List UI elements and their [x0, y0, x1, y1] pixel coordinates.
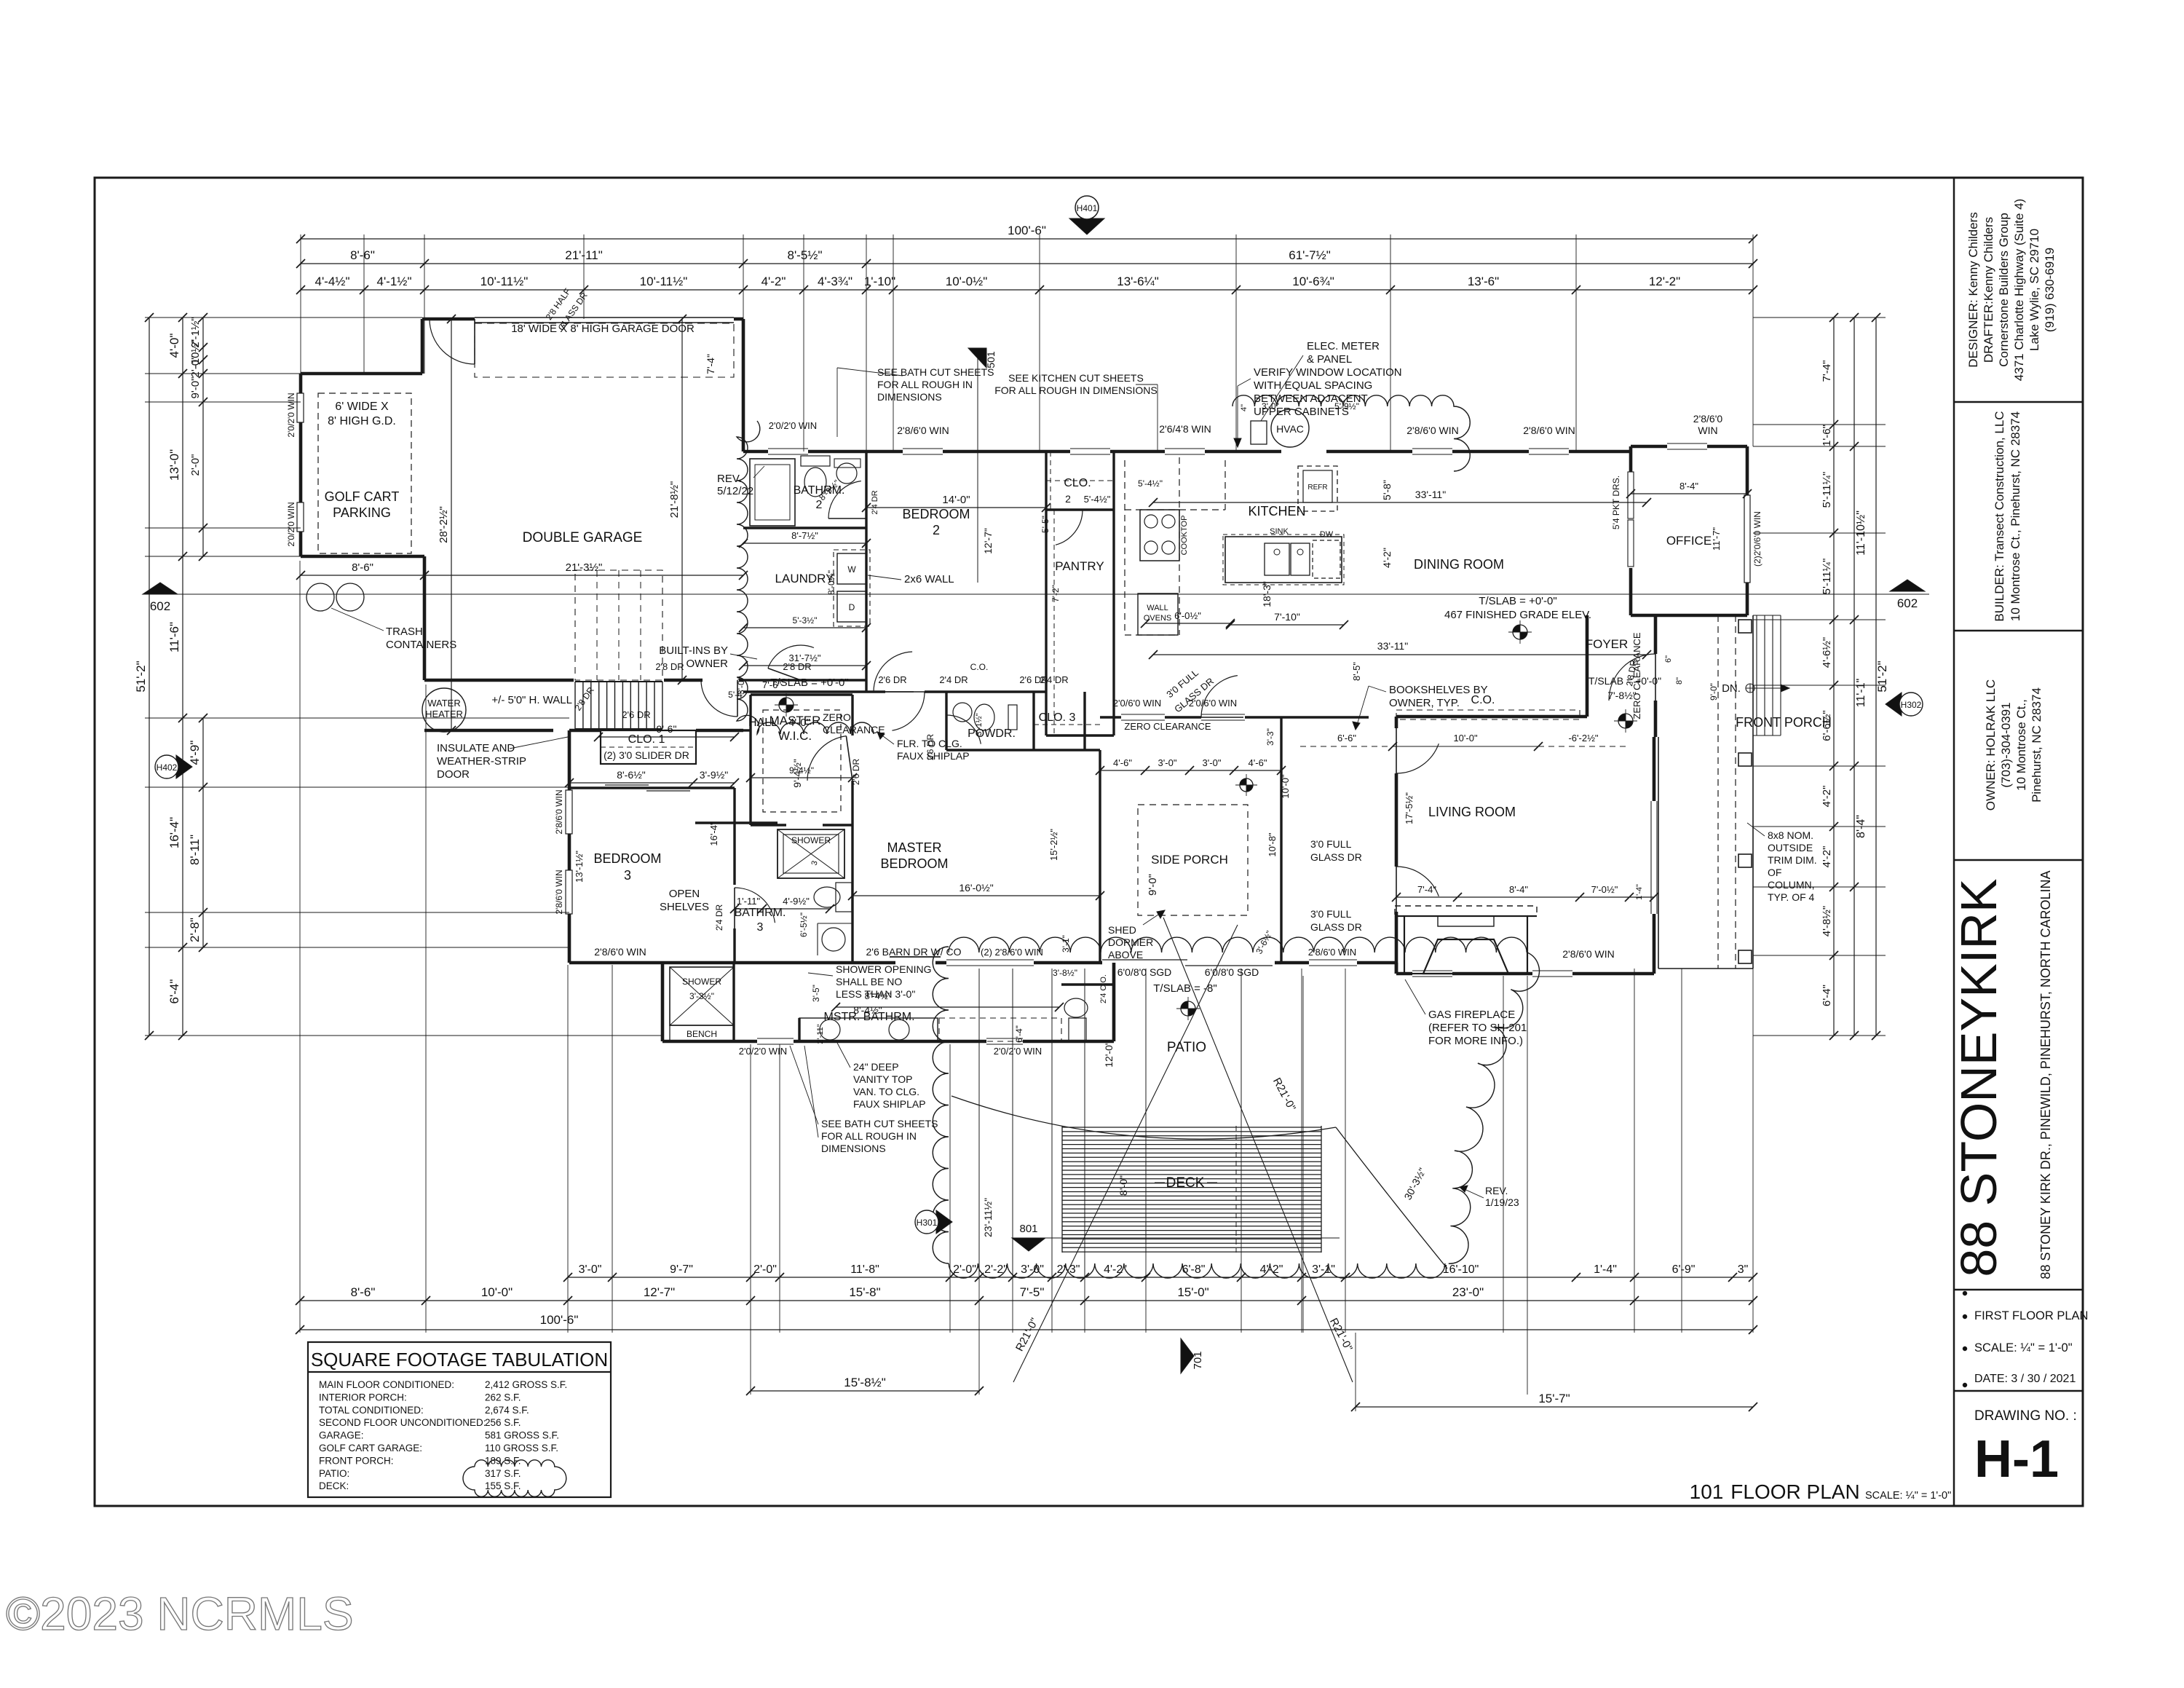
- svg-text:5'-5": 5'-5": [1040, 516, 1051, 533]
- mstr bath interior: [661, 961, 663, 963]
- svg-text:88 STONEYKIRK: 88 STONEYKIRK: [1950, 878, 2007, 1277]
- foyer right wall / front door: [1654, 615, 1658, 654]
- svg-text:2'0/6'0 WIN: 2'0/6'0 WIN: [1189, 698, 1237, 709]
- svg-text:11'-1": 11'-1": [1855, 679, 1867, 708]
- svg-text:4'-2": 4'-2": [1381, 548, 1393, 568]
- svg-text:7'-4": 7'-4": [1417, 884, 1436, 895]
- svg-text:FOR ALL ROUGH IN: FOR ALL ROUGH IN: [877, 379, 973, 390]
- svg-text:10'-8": 10'-8": [1267, 832, 1278, 857]
- wall ovens: [1138, 593, 1178, 635]
- right dimension col fine: [1833, 318, 1835, 1036]
- svg-text:2'0/2'0 WIN: 2'0/2'0 WIN: [286, 393, 296, 437]
- svg-text:BENCH: BENCH: [687, 1029, 717, 1039]
- water heater: [422, 688, 466, 732]
- svg-text:DIMENSIONS: DIMENSIONS: [877, 391, 942, 403]
- svg-text:4'-2": 4'-2": [761, 275, 786, 288]
- svg-text:(919) 630-6919: (919) 630-6919: [2043, 248, 2057, 332]
- open shelves wall: [695, 821, 735, 824]
- svg-text:2: 2: [933, 523, 940, 537]
- svg-text:10'-6¾": 10'-6¾": [1292, 275, 1334, 288]
- marker 501: [968, 348, 986, 368]
- title block: [1953, 178, 1955, 1506]
- living right windows (3) 2-0/6-0: [1650, 801, 1652, 914]
- svg-text:T/SLAB = +0'-0": T/SLAB = +0'-0": [770, 677, 848, 689]
- patio outline verticals: [978, 969, 980, 1277]
- svg-text:5'-3½": 5'-3½": [793, 615, 818, 626]
- svg-text:6'-6": 6'-6": [1337, 733, 1356, 744]
- west wing top wall: [569, 729, 601, 733]
- svg-text:6'0/8'0 SGD: 6'0/8'0 SGD: [1117, 966, 1172, 978]
- svg-text:8'-6": 8'-6": [350, 248, 375, 262]
- svg-text:MASTER: MASTER: [887, 840, 941, 855]
- stairs treads: [574, 682, 576, 729]
- laundry door: [768, 645, 814, 669]
- marker 701: [1181, 1338, 1194, 1373]
- svg-text:DECK: DECK: [1166, 1175, 1205, 1191]
- svg-text:BEDROOM: BEDROOM: [880, 856, 948, 871]
- svg-text:GOLF CART GARAGE:: GOLF CART GARAGE:: [319, 1443, 422, 1454]
- hall south wall: [424, 729, 553, 733]
- svg-text:SHED: SHED: [1108, 924, 1136, 936]
- svg-text:2'8/6'0 WIN: 2'8/6'0 WIN: [1562, 948, 1614, 960]
- svg-text:SECOND FLOOR UNCONDITIONED:: SECOND FLOOR UNCONDITIONED:: [319, 1417, 486, 1428]
- svg-text:ZERO CLEARANCE: ZERO CLEARANCE: [1124, 721, 1211, 732]
- garage west jog wall: [421, 319, 424, 374]
- svg-text:SHOWER: SHOWER: [791, 835, 831, 845]
- svg-text:2'6 BARN DR W/ CO: 2'6 BARN DR W/ CO: [866, 946, 961, 958]
- svg-text:3'-0": 3'-0": [1158, 757, 1177, 768]
- svg-text:DOUBLE GARAGE: DOUBLE GARAGE: [523, 530, 643, 545]
- svg-text:7'-4": 7'-4": [705, 354, 716, 374]
- marker H402: [176, 755, 192, 778]
- svg-text:61'-7½": 61'-7½": [1289, 248, 1330, 262]
- svg-text:12'-0": 12'-0": [1103, 1041, 1115, 1068]
- bottom extension lines: [299, 561, 301, 1333]
- svg-text:VAN. TO CLG.: VAN. TO CLG.: [853, 1086, 919, 1097]
- svg-text:3'-0": 3'-0": [1203, 757, 1222, 768]
- svg-text:2'8/6'0 WIN: 2'8/6'0 WIN: [594, 946, 646, 958]
- svg-text:REV.: REV.: [717, 473, 742, 485]
- mstr bath toilet: [1069, 1018, 1086, 1041]
- svg-text:28'-2½": 28'-2½": [438, 506, 450, 543]
- svg-text:5'-8": 5'-8": [1381, 480, 1393, 500]
- shed dormer dashed: [1138, 805, 1248, 915]
- svg-text:SEE BATH CUT SHEETS: SEE BATH CUT SHEETS: [877, 366, 994, 378]
- svg-text:WATER: WATER: [427, 698, 461, 709]
- svg-text:SHOWER: SHOWER: [682, 977, 721, 987]
- kitchen-dining divider none: [1281, 716, 1369, 718]
- svg-text:FLOOR PLAN: FLOOR PLAN: [1730, 1480, 1859, 1503]
- svg-text:7'-4": 7'-4": [1821, 360, 1833, 382]
- svg-text:15'-2½": 15'-2½": [1048, 829, 1059, 861]
- svg-text:2'0/2'0 WIN: 2'0/2'0 WIN: [994, 1046, 1042, 1057]
- svg-text:10'-0": 10'-0": [481, 1285, 513, 1299]
- svg-text:51'-2": 51'-2": [134, 660, 148, 692]
- svg-text:2'0/2'0 WIN: 2'0/2'0 WIN: [739, 1046, 787, 1057]
- svg-text:10 Montrose Ct., Pinehurst, NC: 10 Montrose Ct., Pinehurst, NC 28374: [2009, 411, 2022, 621]
- svg-text:WIN: WIN: [1698, 425, 1717, 436]
- laundry walls: [743, 679, 866, 681]
- svg-text:SCALE: ¼" = 1'-0": SCALE: ¼" = 1'-0": [1865, 1490, 1951, 1502]
- garage top wall: [422, 318, 475, 321]
- svg-text:3'-8½": 3'-8½": [1053, 968, 1077, 978]
- svg-text:REFR: REFR: [1307, 484, 1327, 492]
- svg-text:8'-11": 8'-11": [188, 835, 202, 865]
- svg-text:10'-0½": 10'-0½": [946, 275, 987, 288]
- svg-text:CONTAINERS: CONTAINERS: [386, 639, 456, 651]
- svg-text:CLO. 3: CLO. 3: [1039, 711, 1076, 724]
- svg-text:CLEARANCE: CLEARANCE: [823, 724, 885, 735]
- pantry door: [1056, 510, 1083, 545]
- svg-text:3'0 FULL: 3'0 FULL: [1310, 908, 1352, 920]
- svg-text:BEDROOM: BEDROOM: [593, 851, 661, 866]
- svg-text:4'-8½": 4'-8½": [1821, 906, 1833, 936]
- marker H301: [936, 1210, 952, 1234]
- svg-text:OWNER: OWNER: [687, 658, 729, 670]
- svg-text:T/SLAB = -8": T/SLAB = -8": [1153, 982, 1216, 995]
- svg-text:SEE BATH CUT SHEETS: SEE BATH CUT SHEETS: [821, 1118, 938, 1129]
- svg-text:100'-6": 100'-6": [1008, 224, 1046, 237]
- svg-text:2'4 DR: 2'4 DR: [939, 674, 968, 685]
- bedroom3 south wall: [569, 961, 662, 965]
- bath3 toilet: [836, 883, 852, 912]
- svg-text:5'-11¼": 5'-11¼": [1821, 472, 1833, 508]
- right dimension col 51-2: [1875, 318, 1877, 1036]
- svg-text:8'-4": 8'-4": [1509, 884, 1528, 895]
- bottom dimension row 4: [751, 1390, 979, 1392]
- front porch outline: [1658, 737, 1659, 969]
- svg-text:DINING ROOM: DINING ROOM: [1414, 557, 1504, 572]
- svg-text:2'8/6'0: 2'8/6'0: [1693, 413, 1723, 425]
- svg-text:33'-11": 33'-11": [1377, 640, 1408, 652]
- bottom dimension row 2: [300, 1300, 1753, 1301]
- svg-text:8'-4½": 8'-4½": [853, 1004, 882, 1016]
- svg-text:ELEC. METER: ELEC. METER: [1307, 340, 1380, 352]
- master shower: [778, 829, 844, 878]
- svg-text:SQUARE FOOTAGE TABULATION: SQUARE FOOTAGE TABULATION: [311, 1349, 608, 1370]
- svg-text:1'-4": 1'-4": [1594, 1263, 1617, 1276]
- svg-text:21'-3½": 21'-3½": [566, 561, 603, 574]
- svg-text:4'-4½": 4'-4½": [314, 275, 349, 288]
- svg-text:DOOR: DOOR: [437, 768, 470, 781]
- svg-text:TRIM DIM.: TRIM DIM.: [1768, 854, 1817, 866]
- svg-text:2'-8": 2'-8": [188, 918, 202, 942]
- clo1: [601, 730, 696, 764]
- top extension lines: [300, 234, 301, 374]
- svg-text:6": 6": [1664, 655, 1673, 663]
- svg-text:GLASS DR: GLASS DR: [1310, 921, 1362, 933]
- svg-text:262 S.F.: 262 S.F.: [485, 1392, 521, 1403]
- bath2 walls: [743, 526, 866, 529]
- svg-text:INTERIOR PORCH:: INTERIOR PORCH:: [319, 1392, 407, 1403]
- bedroom3 top wall: [569, 786, 735, 789]
- svg-text:2'8/6'0 WIN: 2'8/6'0 WIN: [1308, 947, 1356, 958]
- svg-text:REV.: REV.: [1485, 1185, 1508, 1196]
- svg-text:6' WIDE X: 6' WIDE X: [335, 401, 389, 413]
- svg-text:8'-5½": 8'-5½": [787, 248, 822, 262]
- bookshelves dashed: [1396, 710, 1580, 719]
- svg-text:GOLF CART: GOLF CART: [325, 489, 400, 504]
- svg-text:COOKTOP: COOKTOP: [1180, 516, 1189, 556]
- clo2/pantry column: [1045, 451, 1047, 735]
- marker 602 left: [143, 583, 178, 594]
- svg-text:9'-6": 9'-6": [657, 723, 677, 735]
- svg-text:3'-5": 3'-5": [811, 985, 821, 1002]
- svg-text:23'-11½": 23'-11½": [982, 1198, 994, 1237]
- svg-text:801: 801: [1019, 1223, 1037, 1235]
- marker H401: [1069, 218, 1104, 234]
- svg-text:(703)-304-0391: (703)-304-0391: [1999, 702, 2013, 787]
- office right wall: [1746, 446, 1749, 495]
- svg-text:6'-9": 6'-9": [1672, 1263, 1696, 1276]
- svg-text:GLASS DR: GLASS DR: [1310, 851, 1362, 863]
- svg-text:9'-0": 9'-0": [1147, 874, 1159, 896]
- svg-text:T/SLAB = +0'-0": T/SLAB = +0'-0": [1479, 595, 1556, 607]
- svg-text:2'-11": 2'-11": [816, 1024, 825, 1044]
- svg-text:11'-8": 11'-8": [850, 1263, 879, 1276]
- svg-text:10'-11½": 10'-11½": [480, 275, 529, 288]
- svg-text:4'-1½": 4'-1½": [376, 275, 411, 288]
- kitchen counter dashed: [1125, 509, 1225, 510]
- svg-text:5'-4½": 5'-4½": [1084, 494, 1111, 505]
- top dimension row 2: [301, 263, 1753, 264]
- svg-text:2'8/6'0 WIN: 2'8/6'0 WIN: [554, 789, 564, 834]
- svg-text:2'0/2'0 WIN: 2'0/2'0 WIN: [286, 502, 296, 546]
- svg-text:5/12/22: 5/12/22: [717, 485, 753, 497]
- svg-text:DRAWING NO. :: DRAWING NO. :: [1974, 1408, 2077, 1424]
- svg-text:CLO. 1: CLO. 1: [628, 733, 665, 746]
- porch dashed edge: [1735, 615, 1736, 969]
- svg-text:FOR ALL ROUGH IN: FOR ALL ROUGH IN: [821, 1130, 917, 1142]
- svg-text:HEATER: HEATER: [425, 709, 463, 719]
- svg-text:8' HIGH G.D.: 8' HIGH G.D.: [328, 415, 396, 427]
- svg-text:24" DEEP: 24" DEEP: [853, 1061, 899, 1073]
- kitchen south wall: [1100, 716, 1121, 718]
- svg-text:6'-8": 6'-8": [1182, 1263, 1206, 1276]
- svg-text:10'-11½": 10'-11½": [640, 275, 688, 288]
- svg-text:100'-6": 100'-6": [540, 1313, 579, 1327]
- svg-text:15'-7": 15'-7": [1538, 1392, 1570, 1405]
- patio-deck curve: [951, 1096, 1336, 1139]
- svg-text:FOR MORE INFO.): FOR MORE INFO.): [1428, 1035, 1523, 1047]
- svg-text:SHALL BE NO: SHALL BE NO: [836, 976, 902, 987]
- deck edges: [1061, 1126, 1063, 1253]
- svg-text:VANITY TOP: VANITY TOP: [853, 1073, 912, 1085]
- deck hatch: [1062, 1127, 1321, 1128]
- svg-text:2'-0": 2'-0": [953, 1263, 976, 1276]
- svg-text:W.I.C.: W.I.C.: [778, 729, 812, 743]
- svg-text:4'-6½": 4'-6½": [1821, 637, 1833, 668]
- svg-text:2'-0": 2'-0": [189, 454, 202, 476]
- svg-text:18'-3": 18'-3": [1261, 581, 1273, 607]
- svg-text:6'-4": 6'-4": [1821, 985, 1833, 1006]
- svg-text:©2023 NCRMLS: ©2023 NCRMLS: [6, 1588, 354, 1640]
- svg-text:9'-4½": 9'-4½": [789, 765, 814, 776]
- bath3 sink: [822, 928, 845, 951]
- svg-text:2'4 DR: 2'4 DR: [1040, 674, 1068, 685]
- svg-text:6'0/8'0 SGD: 6'0/8'0 SGD: [1205, 966, 1259, 978]
- garage-hall door: [701, 680, 737, 717]
- garage bottom wall: [424, 679, 574, 682]
- svg-text:4'-9½": 4'-9½": [783, 896, 810, 907]
- svg-text:FOR ALL ROUGH IN DIMENSIONS: FOR ALL ROUGH IN DIMENSIONS: [994, 384, 1158, 396]
- section line 602: [143, 593, 1929, 595]
- svg-text:16'-4": 16'-4": [167, 817, 181, 848]
- svg-text:ZERO: ZERO: [823, 711, 851, 723]
- svg-text:OFFICE: OFFICE: [1666, 534, 1712, 548]
- svg-text:8": 8": [1675, 677, 1684, 685]
- svg-text:BEDROOM: BEDROOM: [902, 507, 970, 521]
- side porch east wall: [1280, 717, 1282, 963]
- clo3 dashed: [1034, 724, 1100, 725]
- svg-text:6'-5½": 6'-5½": [799, 912, 809, 937]
- svg-text:HALL: HALL: [748, 717, 778, 729]
- clo2 dashed shelves: [1046, 480, 1114, 481]
- svg-text:5'-9½": 5'-9½": [1334, 401, 1359, 411]
- svg-text:2'-0": 2'-0": [189, 356, 202, 378]
- svg-text:TYP. OF 4: TYP. OF 4: [1768, 891, 1815, 903]
- svg-text:6'-4": 6'-4": [1014, 1025, 1024, 1043]
- svg-text:DECK:: DECK:: [319, 1480, 349, 1491]
- office top wall: [1631, 445, 1667, 449]
- svg-text:2'6 DR: 2'6 DR: [925, 734, 935, 761]
- svg-text:3'-0": 3'-0": [579, 1263, 602, 1276]
- svg-text:8'-0½": 8'-0½": [826, 570, 836, 595]
- svg-text:BOOKSHELVES BY: BOOKSHELVES BY: [1389, 684, 1488, 696]
- svg-text:FRONT PORCH:: FRONT PORCH:: [319, 1455, 394, 1466]
- svg-text:LAUNDRY: LAUNDRY: [775, 572, 834, 585]
- svg-text:4371 Charlotte Highway (Suite: 4371 Charlotte Highway (Suite 4): [2012, 199, 2026, 381]
- svg-text:DN.: DN.: [1722, 682, 1741, 695]
- svg-text:H301: H301: [917, 1218, 938, 1228]
- vanity: [799, 1018, 938, 1041]
- svg-text:8'-4½": 8'-4½": [865, 990, 892, 1001]
- sheet border frame: [95, 178, 2083, 1506]
- fireplace: [1404, 916, 1527, 974]
- svg-text:15'-0": 15'-0": [1177, 1285, 1208, 1299]
- svg-text:SIDE PORCH: SIDE PORCH: [1151, 853, 1228, 867]
- master south windows: [946, 959, 1034, 961]
- svg-text:Pinehurst, NC 28374: Pinehurst, NC 28374: [2030, 687, 2043, 802]
- interior dims: [301, 575, 743, 576]
- svg-text:11'-6": 11'-6": [167, 622, 181, 652]
- garage door dashed header: [475, 323, 734, 377]
- svg-text:10'-0": 10'-0": [1280, 774, 1291, 799]
- svg-text:FRONT PORCH: FRONT PORCH: [1736, 715, 1832, 730]
- barn door: [890, 956, 941, 958]
- svg-text:17'-5½": 17'-5½": [1404, 792, 1415, 824]
- svg-text:HVAC: HVAC: [1276, 423, 1304, 435]
- svg-text:16'-4": 16'-4": [708, 821, 719, 846]
- svg-text:13'-0": 13'-0": [167, 449, 181, 481]
- living bottom wall: [1396, 972, 1412, 976]
- svg-text:1'-11": 1'-11": [737, 896, 761, 907]
- svg-text:2,412 GROSS S.F.: 2,412 GROSS S.F.: [485, 1379, 567, 1390]
- svg-text:2x6 WALL: 2x6 WALL: [904, 573, 954, 585]
- svg-text:7'-6": 7'-6": [762, 679, 781, 690]
- main north wall: [743, 450, 768, 454]
- svg-text:3'-3": 3'-3": [1265, 728, 1275, 746]
- square footage tabulation box: [308, 1342, 611, 1497]
- top dimension row 100-6: [301, 238, 1753, 240]
- bath3 door: [735, 888, 775, 923]
- bottom dimension row 3 100-6: [300, 1329, 1753, 1330]
- bottom dimension row 1: [568, 1277, 1753, 1278]
- svg-text:KITCHEN: KITCHEN: [1248, 504, 1305, 518]
- svg-text:H302: H302: [1901, 700, 1922, 710]
- svg-text:2'4 DR: 2'4 DR: [871, 490, 879, 514]
- pantry shelves dashed: [1053, 510, 1055, 735]
- svg-text:MAIN FLOOR CONDITIONED:: MAIN FLOOR CONDITIONED:: [319, 1379, 454, 1390]
- svg-text:3'0 FULL: 3'0 FULL: [1310, 838, 1352, 850]
- svg-text:9'-7": 9'-7": [670, 1263, 693, 1276]
- hall walls middle: [743, 690, 866, 693]
- svg-text:4'-6": 4'-6": [1113, 757, 1132, 768]
- svg-text:2'6 DR: 2'6 DR: [878, 674, 906, 685]
- svg-text:2'6/4'8 WIN: 2'6/4'8 WIN: [1159, 423, 1211, 435]
- svg-text:4'-3¾": 4'-3¾": [818, 275, 852, 288]
- marker 602 right: [1890, 580, 1925, 591]
- svg-text:31'-7½": 31'-7½": [789, 652, 821, 663]
- master bath block: [661, 963, 665, 1041]
- svg-text:8'-7½": 8'-7½": [791, 530, 818, 541]
- svg-text:602: 602: [150, 599, 170, 613]
- svg-text:GARAGE:: GARAGE:: [319, 1430, 364, 1441]
- svg-text:4'-2": 4'-2": [1821, 846, 1833, 868]
- svg-text:11'-7": 11'-7": [1711, 527, 1722, 551]
- svg-text:1/19/23: 1/19/23: [1485, 1196, 1519, 1208]
- svg-text:CLO.: CLO.: [1064, 477, 1091, 489]
- svg-text:+/- 5'0" H. WALL: +/- 5'0" H. WALL: [491, 694, 572, 706]
- cooktop: [1140, 510, 1179, 561]
- master WIC: [749, 695, 751, 825]
- svg-text:-6'-2½": -6'-2½": [1568, 733, 1598, 744]
- svg-text:8'-6": 8'-6": [351, 1285, 376, 1299]
- svg-text:8'-0": 8'-0": [1117, 1175, 1129, 1196]
- marker H302: [1886, 693, 1902, 716]
- svg-text:INSULATE AND: INSULATE AND: [437, 742, 515, 754]
- svg-text:PATIO: PATIO: [1167, 1040, 1206, 1055]
- living bottom windows: [1412, 970, 1452, 971]
- bath2 door: [828, 481, 861, 519]
- svg-text:H-1: H-1: [1974, 1430, 2059, 1488]
- right dimension col mid: [1853, 318, 1855, 1036]
- half glass door at garage corner: [430, 319, 475, 364]
- porch steps: [1756, 615, 1757, 735]
- svg-text:4'-2": 4'-2": [1821, 786, 1833, 808]
- svg-text:(REFER TO SH-201: (REFER TO SH-201: [1428, 1022, 1527, 1034]
- svg-text:7'-5": 7'-5": [1020, 1285, 1045, 1299]
- svg-text:4": 4": [1240, 404, 1249, 411]
- right extension lines: [1753, 317, 1886, 318]
- svg-text:7'-8½": 7'-8½": [1607, 690, 1637, 701]
- svg-text:SHELVES: SHELVES: [660, 901, 709, 913]
- svg-text:DESIGNER: Kenny Childers: DESIGNER: Kenny Childers: [1966, 212, 1980, 368]
- svg-text:OUTSIDE: OUTSIDE: [1768, 842, 1813, 853]
- golf cart garage windows: [297, 393, 304, 422]
- svg-text:COLUMN,: COLUMN,: [1768, 879, 1815, 891]
- svg-text:SEE KITCHEN CUT SHEETS: SEE KITCHEN CUT SHEETS: [1008, 372, 1144, 384]
- svg-text:12'-7": 12'-7": [982, 528, 994, 554]
- svg-text:Lake Wylie, SC 29710: Lake Wylie, SC 29710: [2027, 229, 2041, 351]
- patio revision cloud: [933, 947, 949, 1263]
- left extension lines: [145, 317, 422, 318]
- bedroom3 slider doors: [605, 784, 649, 786]
- svg-text:15'-8½": 15'-8½": [844, 1376, 885, 1389]
- svg-text:9'-0": 9'-0": [189, 377, 202, 399]
- side porch top dims: [1100, 770, 1281, 771]
- svg-text:8'-4": 8'-4": [1679, 481, 1698, 492]
